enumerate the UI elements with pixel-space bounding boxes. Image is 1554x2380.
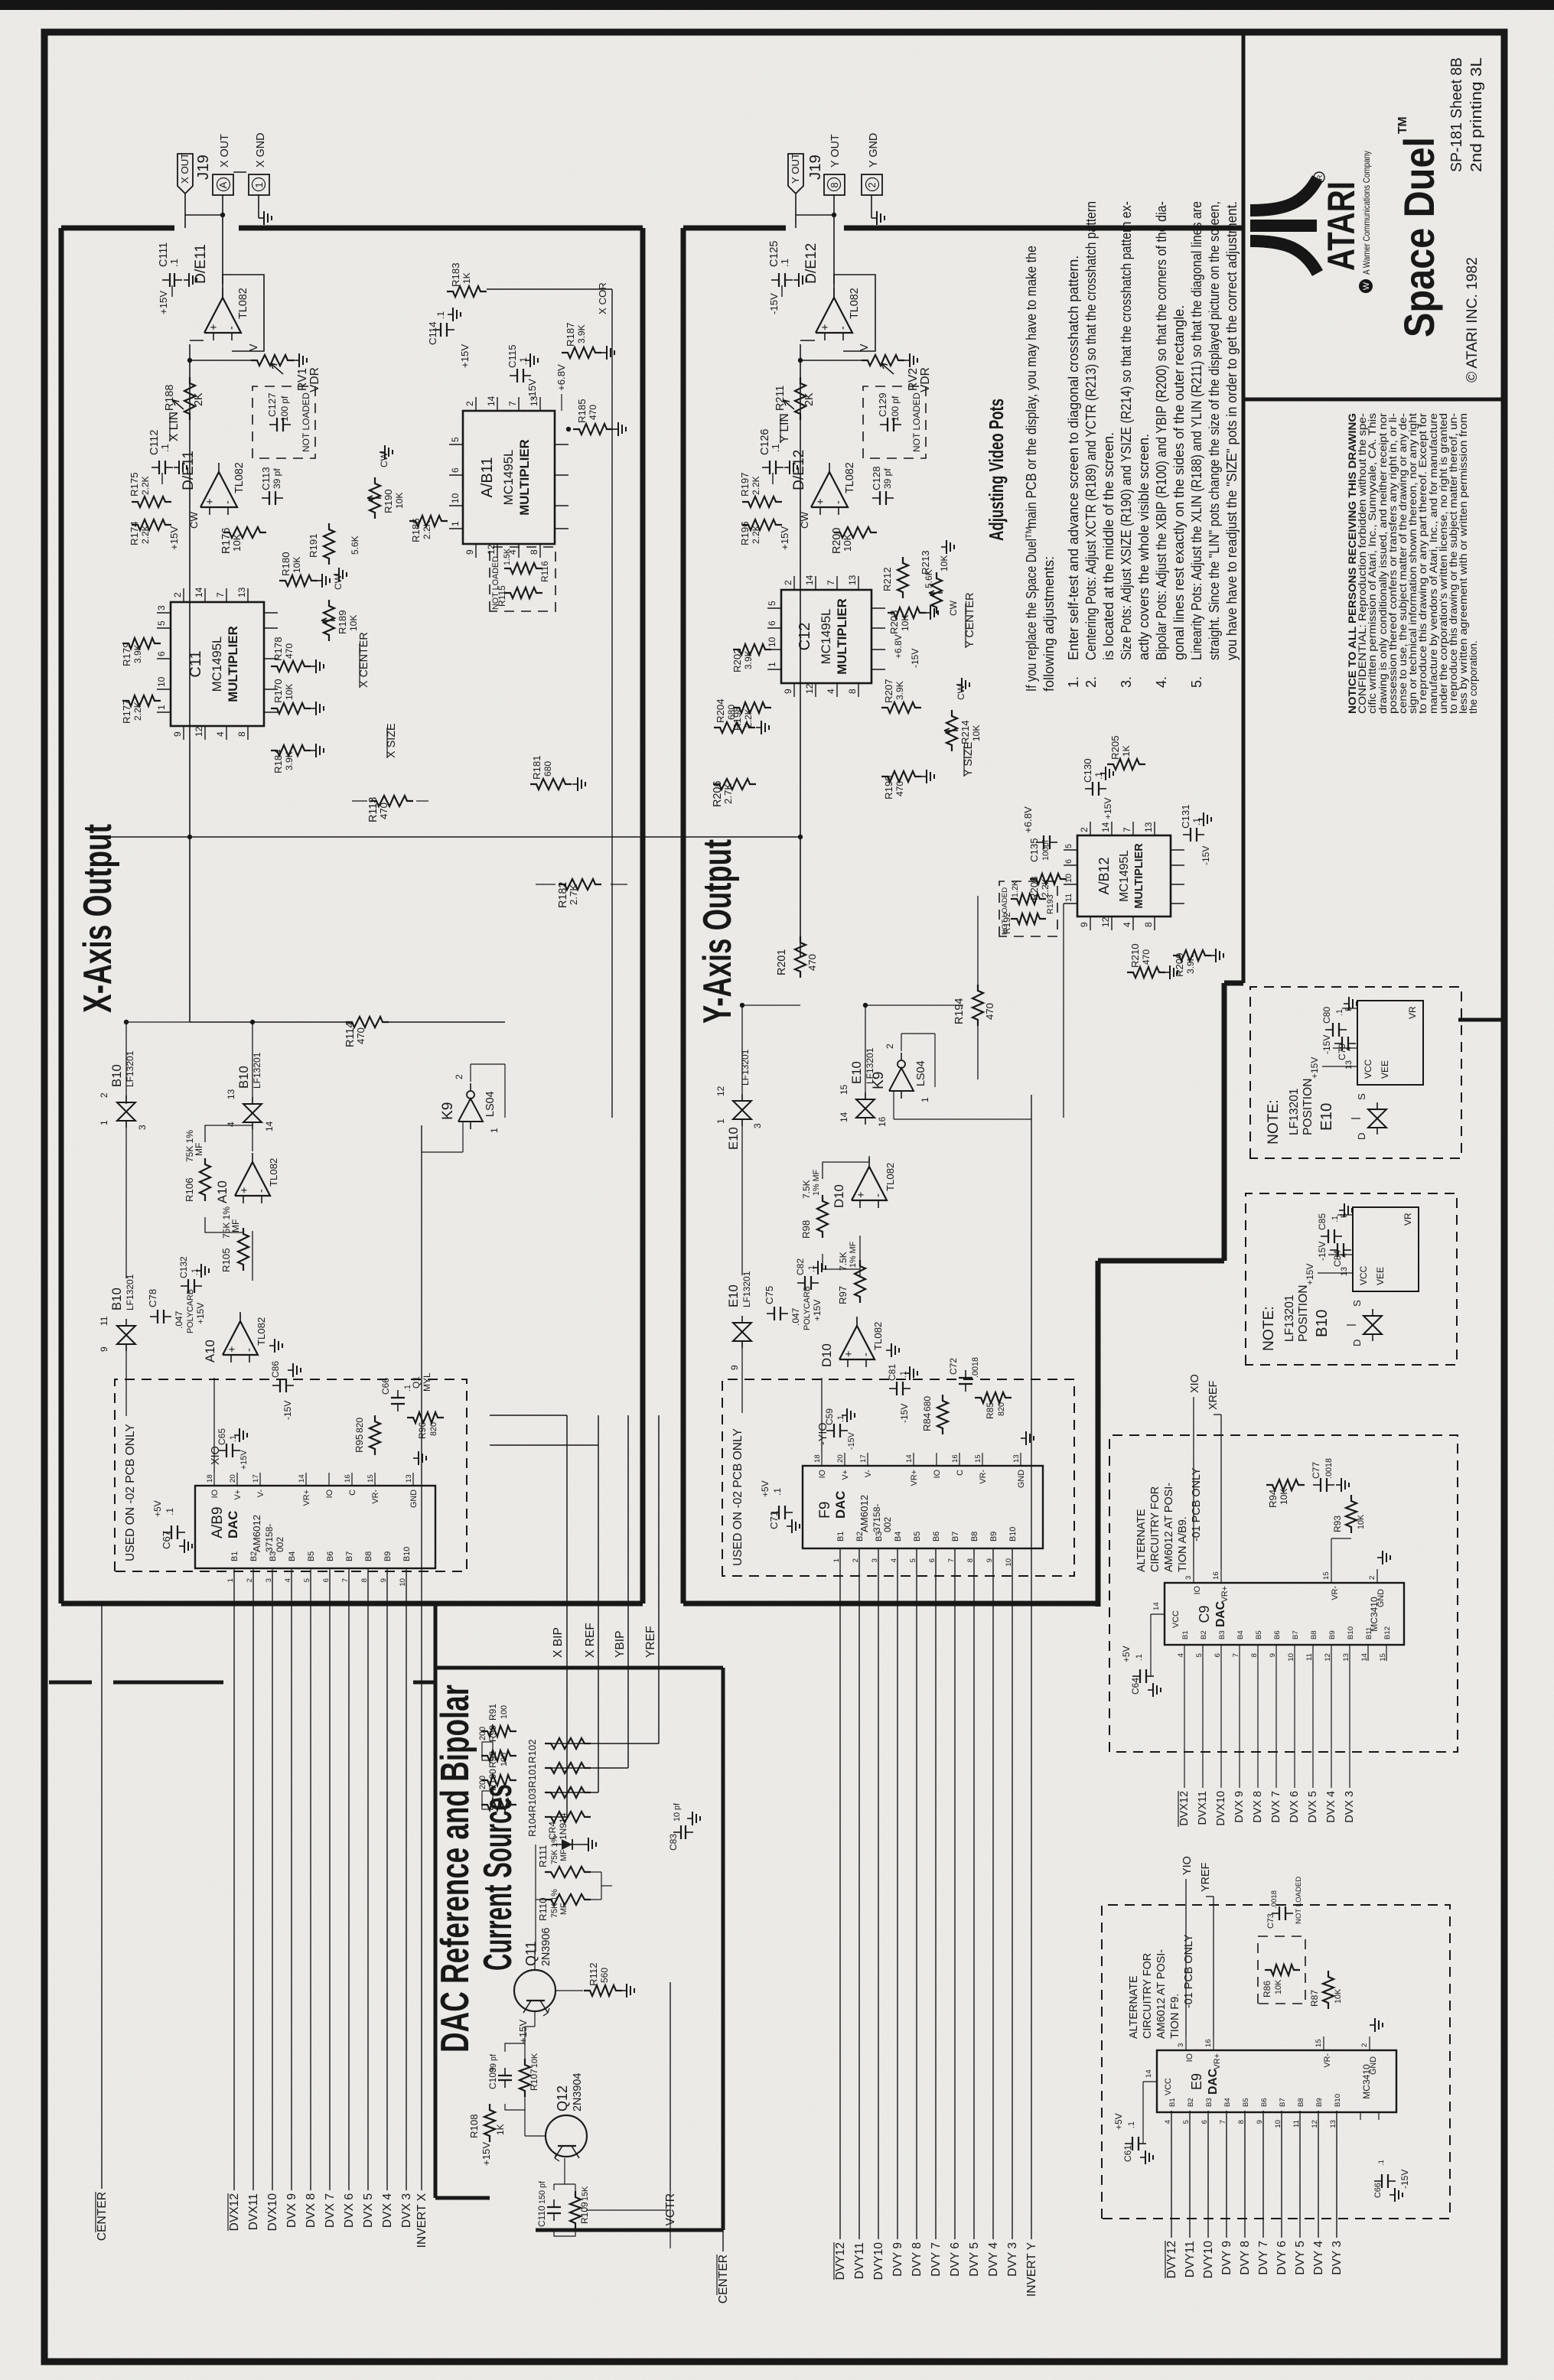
svg-text:R107: R107 bbox=[529, 2069, 539, 2091]
NOT LOADED box R192 R193 bbox=[999, 881, 1057, 936]
svg-text:TM: TM bbox=[1396, 116, 1409, 134]
wire to pin bbox=[190, 340, 204, 341]
svg-text:8: 8 bbox=[1237, 2120, 1246, 2124]
svg-text:VCC: VCC bbox=[1363, 1059, 1373, 1079]
svg-text:1: 1 bbox=[226, 1578, 235, 1582]
svg-text:.1: .1 bbox=[435, 311, 446, 319]
svg-text:2K: 2K bbox=[803, 392, 816, 406]
resistor R87 10K bbox=[1323, 1971, 1334, 2009]
svg-text:37158-: 37158- bbox=[264, 1524, 275, 1552]
svg-text:+5V: +5V bbox=[1113, 2113, 1124, 2130]
resistor R207 3.9K bbox=[881, 702, 921, 713]
svg-text:2: 2 bbox=[172, 592, 183, 597]
svg-text:4.: 4. bbox=[1154, 676, 1169, 688]
svg-text:2: 2 bbox=[885, 1043, 895, 1049]
svg-text:+: + bbox=[226, 1346, 239, 1353]
switch B10 LF13201 c bbox=[117, 1326, 135, 1344]
svg-text:C75: C75 bbox=[764, 1286, 775, 1304]
svg-text:B7: B7 bbox=[1292, 1630, 1300, 1639]
svg-text:R193: R193 bbox=[1046, 894, 1055, 914]
svg-text:Adjusting Video Pots: Adjusting Video Pots bbox=[985, 399, 1008, 541]
svg-text:1: 1 bbox=[489, 1128, 500, 1133]
svg-text:R209: R209 bbox=[1174, 952, 1185, 977]
svg-text:actly covers the whole visible: actly covers the whole visible screen. bbox=[1136, 434, 1152, 660]
svg-text:1: 1 bbox=[832, 1558, 841, 1562]
svg-text:B5: B5 bbox=[307, 1551, 316, 1561]
svg-text:E10: E10 bbox=[849, 1061, 864, 1084]
svg-text:C: C bbox=[956, 1470, 965, 1476]
svg-text:Y-Axis Output: Y-Axis Output bbox=[696, 839, 740, 1024]
capacitor C67 bbox=[171, 1525, 172, 1539]
resistor R203 10K bbox=[888, 607, 926, 618]
svg-text:R102: R102 bbox=[526, 1739, 538, 1763]
capacitor C86 bbox=[279, 1379, 281, 1392]
resistor R210 470 bbox=[1127, 967, 1165, 978]
svg-text:CIRCUITRY FOR: CIRCUITRY FOR bbox=[1142, 1953, 1154, 2039]
capacitor C115 bbox=[516, 369, 518, 383]
svg-text:2N3904: 2N3904 bbox=[572, 2073, 584, 2111]
svg-text:CIRCUITRY FOR: CIRCUITRY FOR bbox=[1149, 1486, 1161, 1572]
svg-text:DVX 9: DVX 9 bbox=[285, 2193, 298, 2228]
svg-text:YREF: YREF bbox=[1200, 1862, 1212, 1892]
svg-text:12: 12 bbox=[194, 726, 204, 737]
svg-text:AM6012 AT POSI-: AM6012 AT POSI- bbox=[1155, 1949, 1168, 2039]
svg-text:R103: R103 bbox=[526, 1788, 538, 1812]
op-amp A10b TL082 bbox=[223, 1321, 258, 1355]
svg-text:ATARI: ATARI bbox=[1320, 181, 1363, 271]
svg-text:.1: .1 bbox=[165, 1508, 175, 1516]
op-amp D10a TL082 bbox=[852, 1167, 887, 1200]
svg-text:2.2K: 2.2K bbox=[751, 476, 761, 495]
wire junction Y bbox=[683, 836, 800, 838]
svg-text:6: 6 bbox=[322, 1578, 331, 1582]
resistor R85 820 bbox=[975, 1392, 1012, 1403]
dashed box C129 NOT LOADED bbox=[863, 386, 926, 458]
svg-text:1: 1 bbox=[99, 1120, 109, 1125]
op-amp A10a TL082 bbox=[235, 1162, 270, 1196]
svg-text:B2: B2 bbox=[1200, 1630, 1208, 1639]
switch E10 LF13201 a bbox=[733, 1101, 751, 1119]
svg-text:K9: K9 bbox=[440, 1102, 456, 1120]
IC A/B11 MC1495L multiplier bbox=[463, 411, 555, 544]
svg-text:XIO: XIO bbox=[1189, 1374, 1201, 1393]
svg-text:100 pf: 100 pf bbox=[279, 396, 290, 422]
svg-text:470: 470 bbox=[984, 1003, 995, 1020]
svg-text:R91: R91 bbox=[487, 1704, 498, 1721]
svg-text:IO: IO bbox=[933, 1470, 942, 1478]
svg-text:C66: C66 bbox=[1373, 2183, 1383, 2198]
svg-text:7: 7 bbox=[1219, 2120, 1227, 2124]
svg-text:A/B9: A/B9 bbox=[210, 1506, 226, 1538]
svg-text:8: 8 bbox=[847, 689, 858, 694]
svg-text:AM6012: AM6012 bbox=[858, 1495, 870, 1532]
dashed link bbox=[233, 171, 246, 173]
svg-text:R100: R100 bbox=[487, 1769, 498, 1791]
svg-text:13: 13 bbox=[226, 1089, 236, 1099]
svg-text:C73: C73 bbox=[1266, 1913, 1275, 1929]
capacitor C71 bbox=[778, 1506, 780, 1519]
svg-text:VR-: VR- bbox=[371, 1490, 380, 1504]
svg-text:GND: GND bbox=[1369, 2056, 1378, 2075]
resistor R214 10K pot bbox=[946, 710, 957, 751]
svg-text:680: 680 bbox=[922, 1396, 933, 1411]
pot arrow R188 bbox=[173, 400, 184, 409]
svg-text:V-: V- bbox=[864, 1470, 873, 1478]
svg-text:15: 15 bbox=[1322, 1571, 1331, 1580]
svg-text:C78: C78 bbox=[147, 1289, 158, 1307]
svg-text:+: + bbox=[815, 499, 827, 505]
svg-text:DVY 6: DVY 6 bbox=[949, 2242, 962, 2277]
svg-text:9: 9 bbox=[1079, 922, 1090, 927]
resistor R108 1K bbox=[484, 2104, 495, 2142]
svg-text:5: 5 bbox=[1064, 844, 1073, 848]
svg-text:2: 2 bbox=[454, 1074, 464, 1079]
svg-text:VCC: VCC bbox=[1164, 2078, 1173, 2095]
resistor R190 10K pot bbox=[370, 477, 380, 519]
svg-text:R181: R181 bbox=[531, 755, 542, 780]
svg-text:MC1495L: MC1495L bbox=[1118, 850, 1131, 902]
svg-text:B10: B10 bbox=[109, 1064, 124, 1087]
svg-text:+15V: +15V bbox=[1309, 1057, 1320, 1079]
svg-text:VCC: VCC bbox=[1358, 1265, 1369, 1285]
svg-text:150 pf: 150 pf bbox=[538, 2180, 547, 2204]
svg-text:R86: R86 bbox=[1262, 1981, 1272, 1997]
transistor Q11 2N3906 bbox=[514, 1970, 555, 2011]
svg-text:Bipolar Pots: Adjust the XBIP: Bipolar Pots: Adjust the XBIP (R100) and… bbox=[1154, 201, 1169, 660]
svg-text:B2: B2 bbox=[855, 1532, 865, 1542]
svg-text:CW: CW bbox=[188, 511, 200, 529]
svg-text:8: 8 bbox=[529, 549, 539, 555]
A/B9 pin rows bbox=[233, 1568, 235, 1571]
svg-text:5: 5 bbox=[767, 601, 777, 606]
svg-text:+15V: +15V bbox=[481, 2142, 492, 2166]
svg-text:IO: IO bbox=[818, 1470, 827, 1478]
svg-text:6: 6 bbox=[1201, 2120, 1209, 2124]
resistor R112 560 bbox=[584, 1985, 622, 1996]
svg-text:16: 16 bbox=[951, 1454, 959, 1463]
resistor R200 10K bbox=[834, 527, 877, 538]
svg-text:4: 4 bbox=[226, 1122, 236, 1127]
svg-text:B12: B12 bbox=[1383, 1626, 1392, 1639]
svg-text:C59: C59 bbox=[824, 1408, 835, 1425]
svg-text:+6.8V: +6.8V bbox=[1022, 806, 1034, 833]
resistors R174 R175 2.2K bbox=[132, 519, 171, 530]
capacitor C64 bbox=[1139, 1669, 1141, 1683]
svg-text:6: 6 bbox=[1214, 1653, 1222, 1657]
svg-text:R201: R201 bbox=[776, 949, 788, 975]
svg-text:E10: E10 bbox=[1318, 1103, 1335, 1131]
svg-text:R191: R191 bbox=[308, 533, 319, 558]
wire YOUT bbox=[795, 194, 797, 228]
wires Q11 Q12 bbox=[524, 2027, 526, 2043]
svg-text:B9: B9 bbox=[1328, 1630, 1337, 1639]
svg-text:NOT LOADED: NOT LOADED bbox=[1295, 1877, 1303, 1924]
svg-text:.1: .1 bbox=[770, 444, 781, 452]
svg-text:+15V: +15V bbox=[779, 526, 790, 550]
svg-text:R112: R112 bbox=[588, 1962, 599, 1986]
svg-text:DVX 3: DVX 3 bbox=[400, 2193, 413, 2228]
svg-text:B8: B8 bbox=[1310, 1630, 1318, 1639]
svg-text:TION A/B9.: TION A/B9. bbox=[1177, 1516, 1189, 1572]
wire from K9 Y bbox=[893, 1091, 894, 1119]
svg-text:NOTE:: NOTE: bbox=[1261, 1306, 1277, 1351]
op-amp D/E11a TL082 bbox=[204, 298, 241, 333]
feedback loop D/E12a bbox=[834, 275, 875, 351]
svg-text:TL082: TL082 bbox=[844, 462, 856, 493]
svg-text:A/B11: A/B11 bbox=[479, 457, 496, 498]
svg-text:470: 470 bbox=[588, 405, 598, 420]
capacitor C131 bbox=[1190, 828, 1191, 842]
svg-text:.1: .1 bbox=[191, 1268, 200, 1275]
svg-text:1: 1 bbox=[156, 705, 167, 710]
IC F9 DAC AM6012 bbox=[803, 1466, 1043, 1548]
svg-text:DVX 6: DVX 6 bbox=[343, 2193, 356, 2228]
svg-text:+: + bbox=[208, 324, 220, 330]
capacitor C111 bbox=[169, 273, 171, 287]
svg-text:8: 8 bbox=[236, 731, 247, 737]
svg-text:TL082: TL082 bbox=[233, 462, 246, 493]
resistor R177 2.2K bbox=[122, 695, 161, 706]
svg-text:100: 100 bbox=[500, 1705, 509, 1719]
svg-text:B6: B6 bbox=[1260, 2098, 1269, 2107]
title area dividers bbox=[1242, 32, 1246, 983]
svg-text:C129: C129 bbox=[877, 392, 888, 417]
svg-text:16: 16 bbox=[1212, 1571, 1220, 1580]
svg-text:B9: B9 bbox=[383, 1551, 393, 1561]
svg-text:R210: R210 bbox=[1129, 943, 1141, 968]
svg-text:9: 9 bbox=[464, 549, 475, 555]
vertical wire x1775 bbox=[190, 1021, 346, 1023]
svg-text:C128: C128 bbox=[871, 466, 882, 490]
svg-text:37158-: 37158- bbox=[871, 1504, 882, 1532]
svg-text:YBIP: YBIP bbox=[614, 1630, 627, 1658]
svg-text:16: 16 bbox=[344, 1474, 352, 1483]
svg-text:B4: B4 bbox=[1223, 2098, 1232, 2107]
resistor R188 2K bbox=[184, 377, 195, 420]
svg-text:R111: R111 bbox=[537, 1844, 549, 1867]
svg-text:DVY11: DVY11 bbox=[853, 2242, 866, 2279]
svg-text:.1: .1 bbox=[1377, 2160, 1386, 2166]
svg-text:R85: R85 bbox=[985, 1402, 995, 1419]
svg-text:-15V: -15V bbox=[526, 379, 538, 400]
svg-text:POLYCARB: POLYCARB bbox=[803, 1286, 812, 1330]
resistor R183 1K bbox=[447, 286, 487, 297]
svg-text:J19: J19 bbox=[807, 155, 824, 180]
DAC Reference section box bbox=[434, 1605, 438, 2198]
svg-text:-15V: -15V bbox=[847, 1431, 856, 1450]
svg-text:R110: R110 bbox=[537, 1897, 549, 1921]
svg-text:2.2K: 2.2K bbox=[140, 476, 151, 495]
resistor R187 3.9K bbox=[562, 347, 601, 358]
svg-text:GND: GND bbox=[1376, 1589, 1386, 1607]
svg-text:C66: C66 bbox=[380, 1378, 391, 1395]
ground X GND bbox=[258, 195, 259, 218]
svg-text:XIO: XIO bbox=[210, 1446, 222, 1465]
svg-text:9: 9 bbox=[986, 1558, 994, 1562]
svg-text:E10: E10 bbox=[726, 1284, 741, 1307]
C9 right pins bbox=[1193, 1569, 1194, 1583]
svg-text:14: 14 bbox=[1100, 822, 1111, 832]
A/B9 right pins bbox=[213, 1473, 215, 1486]
capacitor C110 150pf bbox=[547, 2212, 561, 2214]
svg-text:10: 10 bbox=[399, 1578, 407, 1587]
svg-text:6: 6 bbox=[156, 651, 167, 656]
resistor R94 10K bbox=[1266, 1480, 1305, 1490]
svg-text:1K: 1K bbox=[461, 272, 472, 284]
svg-text:-15V: -15V bbox=[1317, 1242, 1328, 1261]
svg-text:3.9K: 3.9K bbox=[576, 324, 587, 343]
svg-text:R205: R205 bbox=[1109, 735, 1121, 760]
svg-text:GND: GND bbox=[1017, 1470, 1026, 1488]
svg-text:-15V: -15V bbox=[899, 1404, 910, 1423]
svg-text:DVX 5: DVX 5 bbox=[362, 2193, 375, 2228]
svg-text:R87: R87 bbox=[1309, 1990, 1320, 2007]
svg-text:C9: C9 bbox=[1197, 1605, 1212, 1623]
capacitor C113 39pf bbox=[269, 491, 270, 505]
svg-text:C81: C81 bbox=[887, 1364, 898, 1381]
svg-text:Space Duel: Space Duel bbox=[1395, 137, 1443, 337]
svg-text:12: 12 bbox=[486, 544, 497, 555]
wire R113 R182 node bbox=[102, 836, 190, 838]
svg-text:470: 470 bbox=[806, 954, 818, 971]
svg-text:11: 11 bbox=[99, 1316, 109, 1326]
svg-text:8: 8 bbox=[829, 182, 840, 187]
svg-text:TL082: TL082 bbox=[885, 1163, 896, 1191]
svg-text:C127: C127 bbox=[266, 392, 278, 417]
main Y wire bbox=[800, 344, 801, 957]
capacitor C130 bbox=[1092, 782, 1093, 796]
svg-text:B3: B3 bbox=[1218, 1630, 1227, 1639]
resistor R170 10K bbox=[271, 703, 311, 714]
svg-text:TL082: TL082 bbox=[268, 1158, 279, 1187]
svg-text:9: 9 bbox=[99, 1346, 109, 1352]
E9 right pins bbox=[1185, 2037, 1187, 2050]
svg-text:3.9K: 3.9K bbox=[284, 751, 295, 770]
op-amp D/E12a TL082 bbox=[816, 298, 852, 333]
resistor R93 10K bbox=[1346, 1495, 1357, 1533]
svg-text:ALTERNATE: ALTERNATE bbox=[1135, 1509, 1148, 1572]
svg-text:10K: 10K bbox=[231, 533, 243, 552]
svg-text:6: 6 bbox=[928, 1558, 937, 1562]
svg-text:470: 470 bbox=[894, 781, 905, 796]
C132 .1 cap bbox=[187, 1279, 189, 1293]
svg-text:TL082: TL082 bbox=[237, 288, 249, 319]
svg-text:DVY 8: DVY 8 bbox=[1239, 2241, 1252, 2275]
svg-text:1N914: 1N914 bbox=[558, 1812, 568, 1840]
svg-text:.1: .1 bbox=[168, 259, 180, 267]
svg-text:B7: B7 bbox=[1279, 2098, 1287, 2107]
resistor R211 2K bbox=[795, 377, 806, 420]
C9 top pins bbox=[1151, 1613, 1165, 1615]
svg-text:AM6012 AT POSI-: AM6012 AT POSI- bbox=[1163, 1483, 1175, 1572]
svg-text:VR+: VR+ bbox=[1213, 2053, 1222, 2069]
resistors R196 R197 2.2K bbox=[742, 519, 782, 530]
svg-text:C135: C135 bbox=[1028, 838, 1040, 862]
svg-text:1% MF: 1% MF bbox=[812, 1169, 821, 1196]
svg-text:R174: R174 bbox=[129, 521, 140, 545]
svg-text:B3: B3 bbox=[1205, 2098, 1214, 2107]
resistor R186 2.2K bbox=[409, 516, 448, 526]
resistor R206 2.7K bbox=[713, 779, 756, 790]
resistor R91 100 bbox=[481, 1726, 516, 1737]
junction bbox=[566, 427, 571, 431]
svg-text:MF: MF bbox=[559, 1903, 568, 1915]
resistor R185 470 bbox=[573, 424, 613, 435]
svg-text:18: 18 bbox=[813, 1454, 822, 1463]
svg-text:R183: R183 bbox=[450, 262, 461, 287]
svg-text:002: 002 bbox=[275, 1537, 285, 1552]
svg-text:+15V: +15V bbox=[158, 291, 169, 314]
svg-text:POSITION: POSITION bbox=[1302, 1078, 1315, 1135]
svg-text:R214: R214 bbox=[959, 720, 971, 744]
ground A/B9 bbox=[413, 1457, 419, 1459]
svg-text:DVX 5: DVX 5 bbox=[1307, 1791, 1319, 1823]
svg-text:.1: .1 bbox=[779, 259, 790, 267]
svg-text:7.5K: 7.5K bbox=[838, 1252, 849, 1271]
svg-text:4: 4 bbox=[890, 1558, 898, 1562]
svg-text:MULTIPLIER: MULTIPLIER bbox=[1133, 843, 1145, 909]
svg-text:4: 4 bbox=[826, 689, 836, 694]
svg-text:R211: R211 bbox=[774, 386, 787, 411]
svg-text:-: - bbox=[872, 1193, 885, 1197]
svg-text:2: 2 bbox=[246, 1578, 254, 1582]
svg-text:R101: R101 bbox=[526, 1763, 538, 1788]
svg-text:9: 9 bbox=[1256, 2120, 1264, 2124]
svg-text:14: 14 bbox=[1360, 1652, 1369, 1661]
svg-text:2N3906: 2N3906 bbox=[540, 1928, 552, 1966]
svg-text:CENTER: CENTER bbox=[717, 2255, 730, 2303]
IC A/B12 MC1495L multiplier bbox=[1077, 835, 1171, 917]
wire XOUT bbox=[184, 194, 186, 228]
svg-text:DVX 9: DVX 9 bbox=[1233, 1791, 1246, 1823]
resistor R202 3.9K bbox=[733, 644, 771, 655]
svg-text:+: + bbox=[819, 324, 832, 330]
svg-text:13: 13 bbox=[847, 575, 858, 585]
svg-text:3: 3 bbox=[1177, 2043, 1185, 2047]
svg-text:B5: B5 bbox=[1242, 2098, 1250, 2107]
resistor R107 10K bbox=[520, 2059, 530, 2097]
XCOR wire bbox=[611, 289, 613, 1118]
svg-text:DVX11: DVX11 bbox=[1197, 1791, 1209, 1825]
svg-text:2.2K: 2.2K bbox=[422, 520, 432, 539]
resistor R95 820 bbox=[370, 1415, 380, 1455]
svg-text:B1: B1 bbox=[836, 1532, 845, 1542]
svg-text:200: 200 bbox=[478, 1776, 487, 1789]
svg-text:6: 6 bbox=[767, 620, 777, 626]
svg-text:2.2K: 2.2K bbox=[140, 525, 151, 544]
svg-text:2K: 2K bbox=[193, 392, 205, 406]
resistor R189 10K pot bbox=[324, 600, 334, 641]
svg-text:XREF: XREF bbox=[1207, 1380, 1220, 1410]
svg-text:10K: 10K bbox=[292, 557, 302, 573]
Y GND pin box bbox=[862, 174, 882, 195]
svg-text:7: 7 bbox=[507, 401, 518, 406]
svg-text:VEE: VEE bbox=[1375, 1267, 1386, 1285]
capacitor C78 bbox=[157, 1310, 158, 1323]
svg-text:10K: 10K bbox=[1357, 1514, 1366, 1529]
svg-text:200: 200 bbox=[478, 1727, 487, 1740]
svg-text:R180: R180 bbox=[280, 552, 292, 576]
svg-text:LF13201: LF13201 bbox=[741, 1271, 752, 1307]
svg-text:DVY 3: DVY 3 bbox=[1331, 2241, 1344, 2275]
svg-text:12: 12 bbox=[1324, 1653, 1332, 1662]
svg-text:-: - bbox=[832, 500, 845, 504]
capacitor C83 10pf bbox=[680, 1825, 682, 1839]
svg-text:11: 11 bbox=[1305, 1653, 1314, 1661]
svg-text:B9: B9 bbox=[1315, 2098, 1324, 2107]
svg-text:IO: IO bbox=[325, 1490, 334, 1498]
svg-text:DVY 5: DVY 5 bbox=[968, 2242, 981, 2277]
